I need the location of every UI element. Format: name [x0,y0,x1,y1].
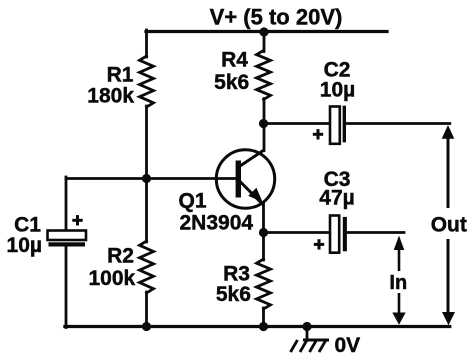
capacitor C1 positive plate [48,231,87,241]
Out arrowhead up [442,125,455,139]
junction dot collector node [259,119,268,128]
label R2 value 100k [88,267,135,290]
wire R3 to ground rail [262,308,265,328]
wire C1 upper vertical [65,177,68,232]
capacitor C1 negative plate [49,242,86,246]
junction dot base node [142,174,151,183]
capacitor C3 plus sign [314,239,324,249]
Out arrowhead down [442,312,455,325]
label Out [431,213,467,236]
transistor Q1 emitter lead [240,182,264,206]
label Q1 [179,190,207,213]
svg-text:R1: R1 [107,64,134,87]
capacitor C2 plus sign [313,129,323,139]
svg-text:10µ: 10µ [320,78,355,101]
svg-text:10µ: 10µ [7,234,42,257]
capacitor C1 plus sign [72,215,82,225]
label C3 value 47u [319,187,354,210]
resistor R2 [140,241,154,293]
label 0V [335,334,361,357]
junction dot R3 ground [259,322,268,331]
resistor R1 [140,56,154,107]
transistor Q1 body circle [216,150,274,208]
svg-text:R3: R3 [223,263,250,286]
label Q1 type 2N3904 [180,212,254,235]
wire base (C1 node to Q1 base) [66,177,236,180]
junction dot V+ rail / R4 [259,27,268,36]
label R3 value 5k6 [216,283,251,306]
svg-text:100k: 100k [88,267,135,290]
svg-text:2N3904: 2N3904 [180,212,254,235]
label R1 value 180k [87,84,134,107]
svg-text:Out: Out [431,213,467,236]
label C2 value 10u [320,78,355,101]
label C3 [324,168,351,191]
transistor Q1 base bar [236,161,241,198]
Out measurement line lower segment [447,239,450,314]
transistor Q1 emitter arrowhead [248,188,262,202]
svg-text:Q1: Q1 [179,190,207,213]
label R4 value 5k6 [214,71,249,94]
In measurement line upper segment [398,248,401,271]
transistor Q1 base wire inside circle [216,177,236,180]
capacitor C3 positive plate [330,216,339,253]
wire 0V bottom rail [65,325,450,328]
transistor Q1 collector lead [240,150,264,166]
wire C1 lower vertical [65,246,68,328]
wire left branch middle (R1 to base node to R2) [145,106,148,242]
wire left branch upper (rail to R1) [145,30,148,57]
wire C3 to In [347,231,405,234]
svg-text:5k6: 5k6 [214,71,249,94]
label R2 [107,245,134,268]
label R4 [221,49,248,72]
capacitor C3 negative plate [343,217,347,251]
wire emitter node to C3 [262,231,330,234]
svg-text:0V: 0V [335,334,361,357]
label C1 value 10u [7,234,42,257]
wire emitter vertical [262,203,265,234]
junction dot R2 ground [142,322,151,331]
wire collector node to C2 [262,122,330,125]
label In [389,272,407,294]
ground symbol [291,327,330,353]
wire collector vertical [263,122,266,151]
In arrowhead up [394,236,405,251]
wire left branch lower (R2 to ground rail) [145,292,148,327]
In measurement line lower segment [398,293,401,314]
svg-text:In: In [389,272,407,294]
Out measurement line upper segment [447,137,450,208]
svg-text:180k: 180k [87,84,134,107]
wire R4 to collector node [263,99,266,125]
wire center vertical (rail to R4) [263,31,266,52]
resistor R3 [257,259,271,309]
wire V+ top rail [146,30,387,33]
label V+ supply [210,5,343,30]
capacitor C2 negative plate [343,106,346,143]
svg-text:47µ: 47µ [319,187,354,210]
svg-text:V+ (5 to 20V): V+ (5 to 20V) [210,5,343,30]
svg-text:5k6: 5k6 [216,283,251,306]
junction dot emitter node [259,228,268,237]
label C2 [324,58,351,81]
label C1 [14,214,41,237]
label R1 [107,64,134,87]
In arrowhead down [392,313,405,325]
wire C2 to Out [346,122,450,125]
junction dot ground symbol [302,322,311,331]
capacitor C2 positive plate [330,107,340,144]
svg-text:R4: R4 [221,49,248,72]
label R3 [223,263,250,286]
resistor R4 [257,51,271,100]
wire emitter node to R3 [262,232,265,261]
svg-text:R2: R2 [107,245,134,268]
